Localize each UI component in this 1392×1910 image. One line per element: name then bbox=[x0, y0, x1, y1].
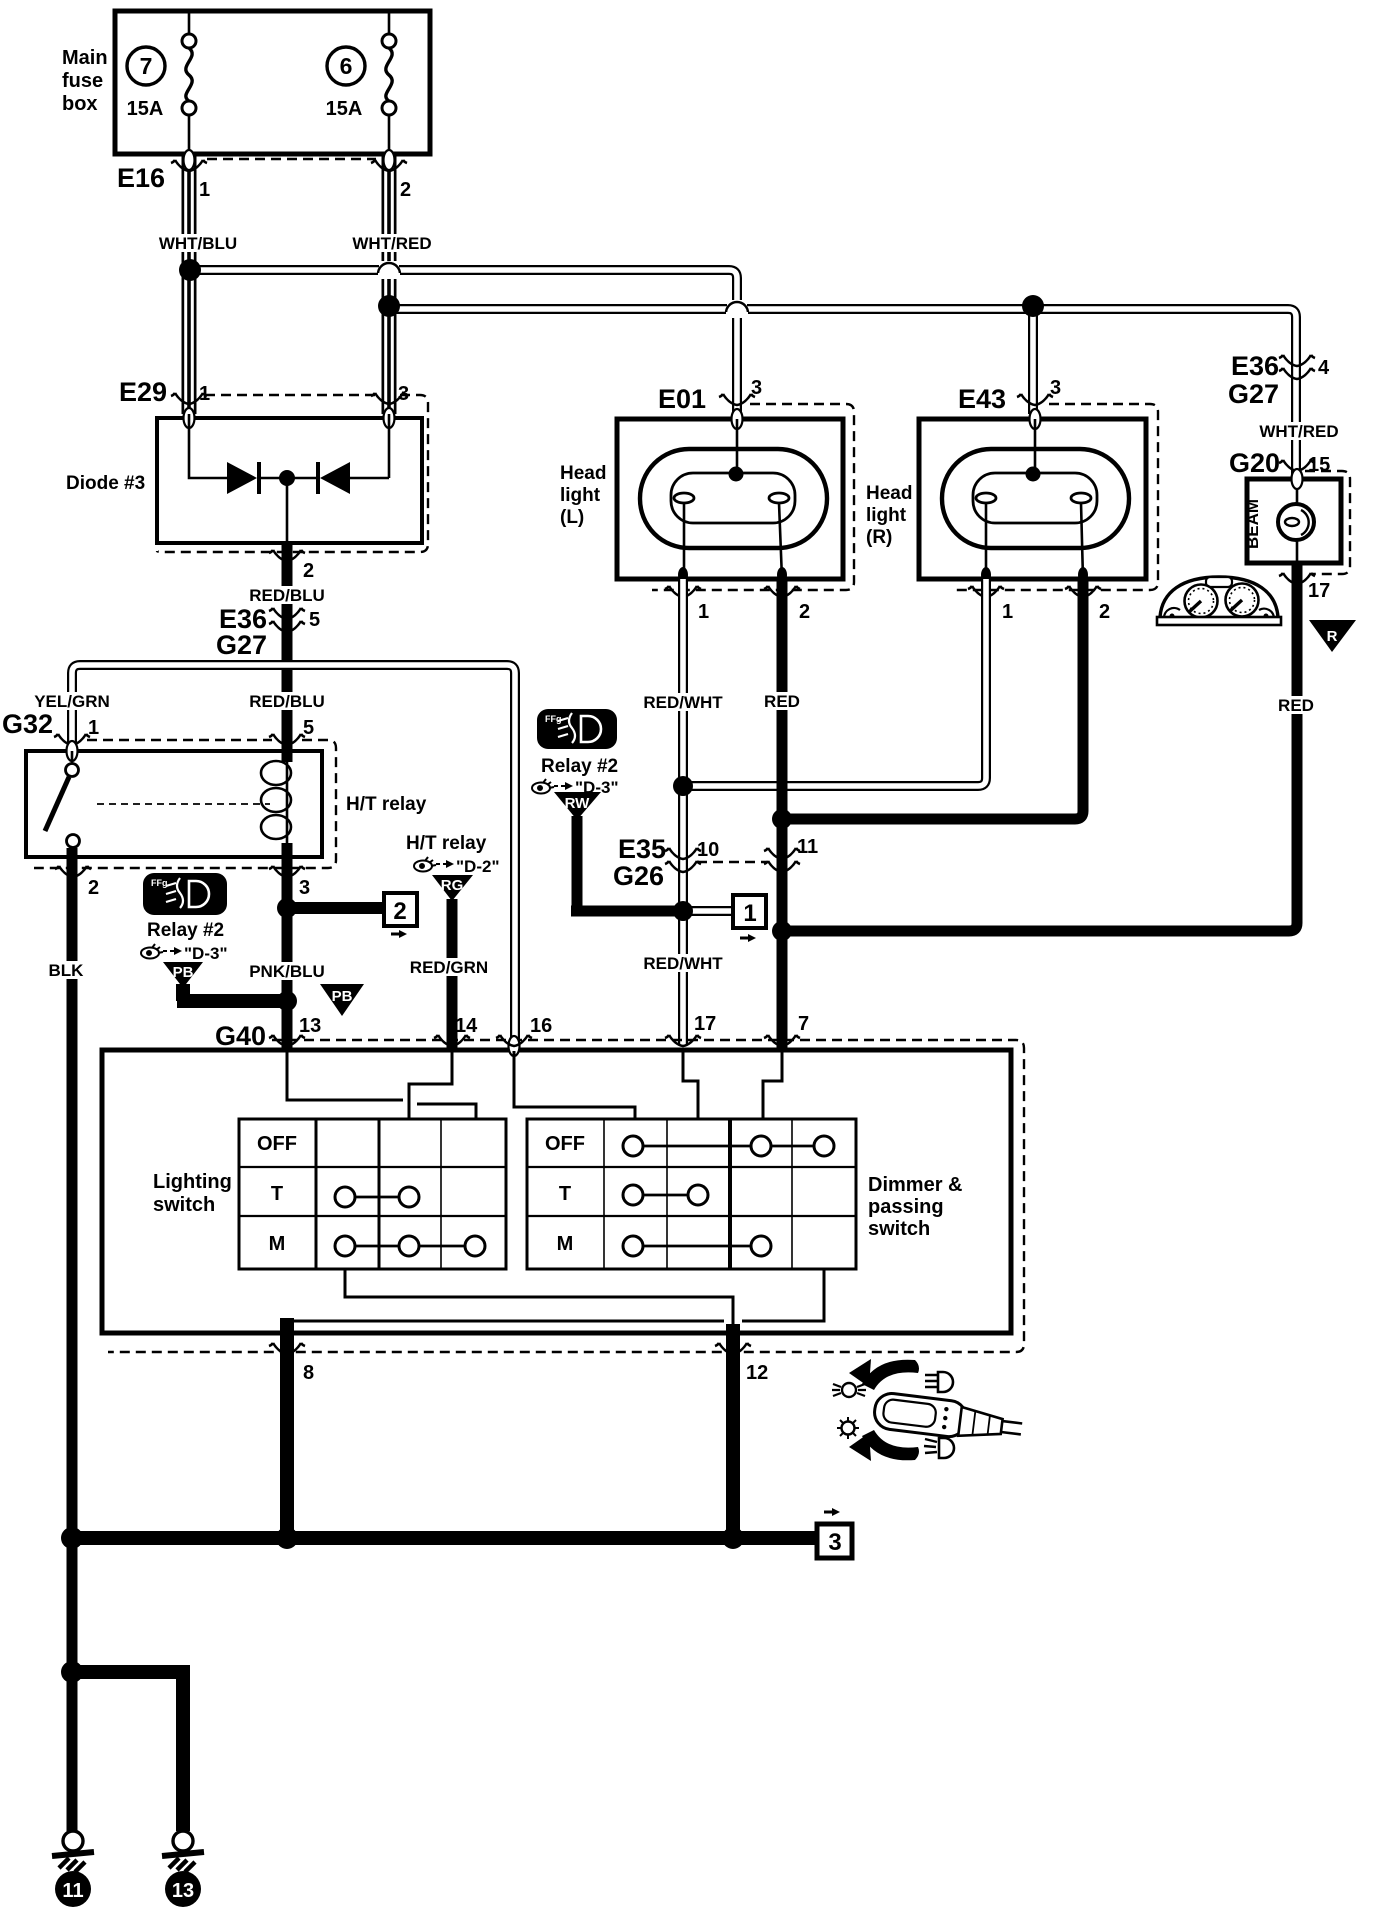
svg-text:H/T relay: H/T relay bbox=[406, 833, 487, 854]
lighting switch contacts M row bbox=[335, 1236, 485, 1256]
dimmer & passing switch label bbox=[868, 1174, 962, 1240]
junction pin 12 wire bbox=[722, 1527, 744, 1549]
wire lighting switch output to G40 pin 12 bbox=[345, 1269, 733, 1330]
lighting switch table bbox=[239, 1119, 506, 1269]
svg-text:E01: E01 bbox=[658, 384, 706, 414]
junction RED high beams bbox=[772, 809, 792, 829]
connector G20 pin 17 bbox=[1279, 573, 1330, 602]
svg-text:Head: Head bbox=[560, 463, 606, 484]
svg-text:light: light bbox=[866, 505, 907, 526]
svg-text:3: 3 bbox=[751, 377, 762, 399]
svg-text:Head: Head bbox=[866, 483, 912, 504]
svg-text:E16: E16 bbox=[117, 163, 165, 193]
lighting switch label bbox=[153, 1171, 232, 1216]
wire to terminal box 1 bbox=[683, 906, 731, 916]
svg-text:OFF: OFF bbox=[257, 1133, 297, 1155]
wire RED (right, BEAM to junction) bbox=[782, 563, 1317, 931]
svg-text:light: light bbox=[560, 485, 601, 506]
lighting switch contacts T row bbox=[335, 1187, 419, 1207]
svg-text:13: 13 bbox=[299, 1015, 321, 1037]
svg-text:17: 17 bbox=[1308, 580, 1330, 602]
svg-text:switch: switch bbox=[868, 1218, 930, 1240]
svg-text:G40: G40 bbox=[215, 1021, 266, 1051]
svg-text:PNK/BLU: PNK/BLU bbox=[249, 962, 325, 981]
ground id 11 bbox=[55, 1871, 91, 1907]
E01 dashed boundary bbox=[652, 404, 854, 590]
svg-text:3: 3 bbox=[299, 877, 310, 899]
relay switch contacts bbox=[45, 751, 80, 848]
svg-text:Relay #2: Relay #2 bbox=[147, 920, 224, 941]
connector G40 dashed boundary bbox=[108, 1040, 1024, 1352]
junction E43 branch bbox=[1022, 295, 1044, 317]
ground symbol left bbox=[52, 1831, 94, 1872]
svg-text:M: M bbox=[557, 1233, 574, 1255]
ground id 13 bbox=[165, 1871, 201, 1907]
ground bus wire bbox=[72, 1531, 817, 1545]
svg-text:G32: G32 bbox=[2, 709, 53, 739]
wire G40-13 to lighting switch col4 bbox=[287, 1051, 476, 1120]
connector G32 pin 2 bbox=[55, 866, 99, 899]
connector E16 dashed line bbox=[207, 158, 376, 160]
svg-text:1: 1 bbox=[1002, 601, 1013, 623]
svg-text:WHT/BLU: WHT/BLU bbox=[159, 234, 237, 253]
triangle PB (relay #2 output) bbox=[163, 962, 203, 988]
svg-text:2: 2 bbox=[1099, 601, 1110, 623]
hop of WHT/RED feed over E01 pin3 wire bbox=[726, 300, 748, 318]
E43 pin exits bbox=[968, 567, 1110, 623]
diode D2 bbox=[318, 462, 350, 494]
BEAM bulb bbox=[1278, 489, 1314, 563]
svg-text:Main: Main bbox=[62, 47, 108, 69]
connector E43 pin 3 bbox=[958, 377, 1061, 414]
junction WHT/BLU bbox=[179, 259, 201, 281]
wire RED (E01 pin 2 to G40 pin 7) bbox=[761, 579, 803, 1050]
svg-text:(R): (R) bbox=[866, 527, 892, 548]
junction PNK/BLU to box 2 bbox=[277, 898, 297, 918]
connector E01 pin 3 bbox=[658, 377, 762, 414]
svg-text:box: box bbox=[62, 93, 98, 115]
triangle RG bbox=[432, 875, 473, 901]
svg-text:Lighting: Lighting bbox=[153, 1171, 232, 1193]
svg-text:7: 7 bbox=[798, 1013, 809, 1035]
svg-text:2: 2 bbox=[88, 877, 99, 899]
wire dimmer switch output to G40 pin 8 bbox=[287, 1269, 824, 1330]
svg-text:RED: RED bbox=[764, 692, 800, 711]
svg-text:"D-2": "D-2" bbox=[456, 857, 500, 876]
svg-text:switch: switch bbox=[153, 1194, 215, 1216]
svg-text:1: 1 bbox=[698, 601, 709, 623]
svg-text:3: 3 bbox=[398, 383, 409, 405]
wire E43 pin 1 to RED/WHT junction bbox=[683, 579, 986, 786]
svg-text:2: 2 bbox=[303, 560, 314, 582]
svg-text:RED/BLU: RED/BLU bbox=[249, 692, 325, 711]
head light (R) bulb bbox=[942, 419, 1129, 579]
wire RED/WHT (E01 pin 1 to G40 pin 17) bbox=[638, 579, 728, 1045]
wire BLK bbox=[46, 848, 86, 1831]
dimmer switch contacts T row bbox=[623, 1185, 708, 1205]
svg-text:6: 6 bbox=[340, 53, 353, 79]
wire G40-14 to lighting switch col3 bbox=[409, 1051, 452, 1120]
H/T relay reference (D-2) bbox=[406, 833, 500, 876]
svg-text:PB: PB bbox=[173, 964, 194, 981]
svg-text:R: R bbox=[1327, 628, 1338, 645]
svg-text:E36: E36 bbox=[1231, 351, 1279, 381]
svg-text:RED: RED bbox=[1278, 696, 1314, 715]
relay #2 reference (D-3) right bbox=[532, 756, 619, 797]
svg-text:RED/WHT: RED/WHT bbox=[643, 693, 723, 712]
connector G32 pin 3 bbox=[269, 866, 310, 899]
svg-text:Relay #2: Relay #2 bbox=[541, 756, 618, 777]
dimmer switch contacts OFF row bbox=[623, 1136, 834, 1156]
head light (L) box bbox=[560, 409, 843, 579]
connector G40 pin 8 bbox=[269, 1318, 314, 1538]
svg-text:11: 11 bbox=[62, 1880, 83, 1902]
connector E16 bbox=[117, 150, 411, 201]
relay #2 fog lamp icon (right) bbox=[537, 709, 617, 749]
svg-text:RED/WHT: RED/WHT bbox=[643, 954, 723, 973]
svg-text:G27: G27 bbox=[216, 630, 267, 660]
triangle RW bbox=[554, 792, 601, 820]
svg-text:13: 13 bbox=[172, 1880, 194, 1902]
svg-text:1: 1 bbox=[88, 717, 99, 739]
svg-text:E43: E43 bbox=[958, 384, 1006, 414]
terminal box 1 bbox=[733, 895, 766, 942]
svg-text:fuse: fuse bbox=[62, 70, 103, 92]
dimmer switch contacts M row bbox=[623, 1236, 771, 1256]
svg-text:2: 2 bbox=[393, 898, 406, 925]
connector E29 pin 2 bbox=[269, 550, 314, 582]
svg-text:passing: passing bbox=[868, 1196, 944, 1218]
ground branch wire bbox=[72, 1672, 183, 1831]
connector G20 pin 15 bbox=[1229, 448, 1330, 478]
wire WHT/BLU feed to E01 pin 3 bbox=[190, 270, 737, 414]
BEAM indicator dashed boundary bbox=[1305, 471, 1350, 574]
terminal box 3 bbox=[817, 1508, 852, 1558]
connector G40 pin 12 bbox=[715, 1324, 768, 1538]
wire RED/BLU diode output bbox=[245, 478, 329, 762]
diode box bbox=[66, 408, 422, 543]
wire E43 pin 2 to RED junction bbox=[782, 579, 1083, 819]
junction PB wire bbox=[277, 991, 297, 1011]
svg-text:8: 8 bbox=[303, 1362, 314, 1384]
svg-text:3: 3 bbox=[1050, 377, 1061, 399]
fuse 6 (15A) bbox=[326, 13, 396, 152]
svg-text:G27: G27 bbox=[1228, 379, 1279, 409]
head light (L) bulb bbox=[640, 419, 827, 579]
E01 pin exits bbox=[665, 567, 810, 623]
svg-text:15A: 15A bbox=[326, 98, 363, 120]
svg-text:1: 1 bbox=[199, 383, 210, 405]
wire WHT/RED (fuse 6 to E29) bbox=[346, 154, 438, 414]
junction RW wire bbox=[673, 901, 693, 921]
svg-text:G20: G20 bbox=[1229, 448, 1280, 478]
wire WHT/RED feed to E43 and E36/G27 pin 4 bbox=[389, 309, 1345, 477]
connector G40 bbox=[215, 1013, 809, 1056]
wire G40-7 to dimmer switch col4 bbox=[763, 1051, 782, 1120]
svg-text:RW: RW bbox=[565, 795, 591, 812]
junction BLK corner bbox=[61, 1527, 83, 1549]
wire PB to PNK/BLU bbox=[177, 984, 287, 1001]
relay coil bbox=[261, 761, 291, 843]
svg-text:1: 1 bbox=[199, 179, 210, 201]
fuse 7 (15A) bbox=[127, 13, 196, 152]
svg-text:Dimmer &: Dimmer & bbox=[868, 1174, 962, 1196]
switch assembly box bbox=[102, 1050, 1011, 1333]
combination switch stalk icon bbox=[832, 1359, 1024, 1461]
H/T relay box bbox=[26, 741, 427, 857]
relay #2 fog lamp icon (left) bbox=[143, 873, 227, 915]
junction diodes common bbox=[279, 470, 295, 486]
junction pin 8 wire bbox=[276, 1527, 298, 1549]
connector E35/G26 bbox=[613, 834, 818, 891]
svg-text:WHT/RED: WHT/RED bbox=[1259, 422, 1338, 441]
relay #2 reference (D-3) left bbox=[141, 920, 228, 963]
svg-text:G26: G26 bbox=[613, 861, 664, 891]
svg-text:5: 5 bbox=[309, 609, 320, 631]
svg-text:16: 16 bbox=[530, 1015, 552, 1037]
svg-text:1: 1 bbox=[743, 900, 756, 927]
svg-text:E35: E35 bbox=[618, 834, 666, 864]
triangle PB (floating) bbox=[320, 984, 364, 1016]
BEAM indicator box bbox=[1243, 469, 1341, 563]
svg-text:(L): (L) bbox=[560, 507, 584, 528]
connector E29 bbox=[119, 377, 428, 552]
svg-text:BEAM: BEAM bbox=[1243, 499, 1262, 549]
wire WHT/BLU (fuse 7 to E29) bbox=[152, 154, 244, 414]
junction ground branch bbox=[61, 1661, 83, 1683]
svg-text:12: 12 bbox=[746, 1362, 768, 1384]
ground symbol right bbox=[162, 1831, 204, 1872]
svg-text:RED/BLU: RED/BLU bbox=[249, 586, 325, 605]
wire branch to E43 pin 3 bbox=[1028, 309, 1038, 414]
svg-text:14: 14 bbox=[455, 1015, 478, 1037]
E43 dashed boundary bbox=[952, 404, 1158, 590]
svg-text:2: 2 bbox=[799, 601, 810, 623]
head light (R) box bbox=[866, 409, 1146, 579]
svg-text:BLK: BLK bbox=[49, 961, 85, 980]
connector G32 bbox=[2, 709, 336, 868]
diode D1 bbox=[227, 462, 259, 494]
junction WHT/RED bbox=[378, 295, 400, 317]
svg-text:OFF: OFF bbox=[545, 1133, 585, 1155]
svg-text:RG: RG bbox=[441, 877, 464, 894]
wire G40-17 to dimmer switch col3 bbox=[683, 1051, 698, 1120]
svg-text:E29: E29 bbox=[119, 377, 167, 407]
svg-text:"D-3": "D-3" bbox=[184, 944, 228, 963]
wire G40-16 to dimmer switch col2 bbox=[514, 1051, 635, 1120]
svg-text:10: 10 bbox=[697, 839, 719, 861]
svg-text:T: T bbox=[271, 1183, 283, 1205]
svg-text:RED/GRN: RED/GRN bbox=[410, 958, 488, 977]
junction RED/WHT low beams bbox=[673, 776, 693, 796]
svg-text:H/T relay: H/T relay bbox=[346, 794, 427, 815]
svg-text:3: 3 bbox=[828, 1529, 841, 1556]
hop of E01 feed over WHT/RED wire bbox=[378, 261, 400, 279]
terminal box 2 bbox=[384, 893, 417, 938]
triangle R bbox=[1309, 620, 1356, 652]
wire PNK/BLU bbox=[243, 843, 331, 1050]
svg-text:15: 15 bbox=[1308, 454, 1330, 476]
wire YEL/GRN loop from G40 pin 16 to G32 pin 1 bbox=[29, 665, 515, 1045]
dimmer switch table bbox=[527, 1119, 856, 1269]
svg-text:M: M bbox=[269, 1233, 286, 1255]
relay mechanical link (dashed) bbox=[97, 803, 270, 805]
svg-text:2: 2 bbox=[400, 179, 411, 201]
wire to terminal box 2 bbox=[287, 902, 382, 914]
svg-text:WHT/RED: WHT/RED bbox=[352, 234, 431, 253]
svg-text:PB: PB bbox=[332, 988, 353, 1005]
connector E36/G27 pin 4 bbox=[1228, 351, 1330, 409]
svg-text:15A: 15A bbox=[127, 98, 164, 120]
svg-text:T: T bbox=[559, 1183, 571, 1205]
svg-text:11: 11 bbox=[797, 836, 818, 858]
svg-text:17: 17 bbox=[694, 1013, 716, 1035]
instrument cluster icon bbox=[1157, 577, 1281, 625]
svg-text:Diode #3: Diode #3 bbox=[66, 473, 145, 494]
svg-text:5: 5 bbox=[303, 717, 314, 739]
svg-text:FFg: FFg bbox=[151, 878, 168, 888]
svg-text:4: 4 bbox=[1318, 357, 1330, 379]
diode leads bbox=[189, 414, 389, 478]
wire RED/GRN bbox=[404, 899, 494, 1050]
svg-text:FFg: FFg bbox=[545, 714, 562, 724]
wire RW to RED/WHT junction bbox=[571, 816, 679, 911]
main fuse box bbox=[62, 11, 430, 154]
connector E36/G27 pin 5 bbox=[216, 604, 320, 660]
svg-text:7: 7 bbox=[140, 53, 153, 79]
junction RED to BEAM bbox=[772, 921, 792, 941]
